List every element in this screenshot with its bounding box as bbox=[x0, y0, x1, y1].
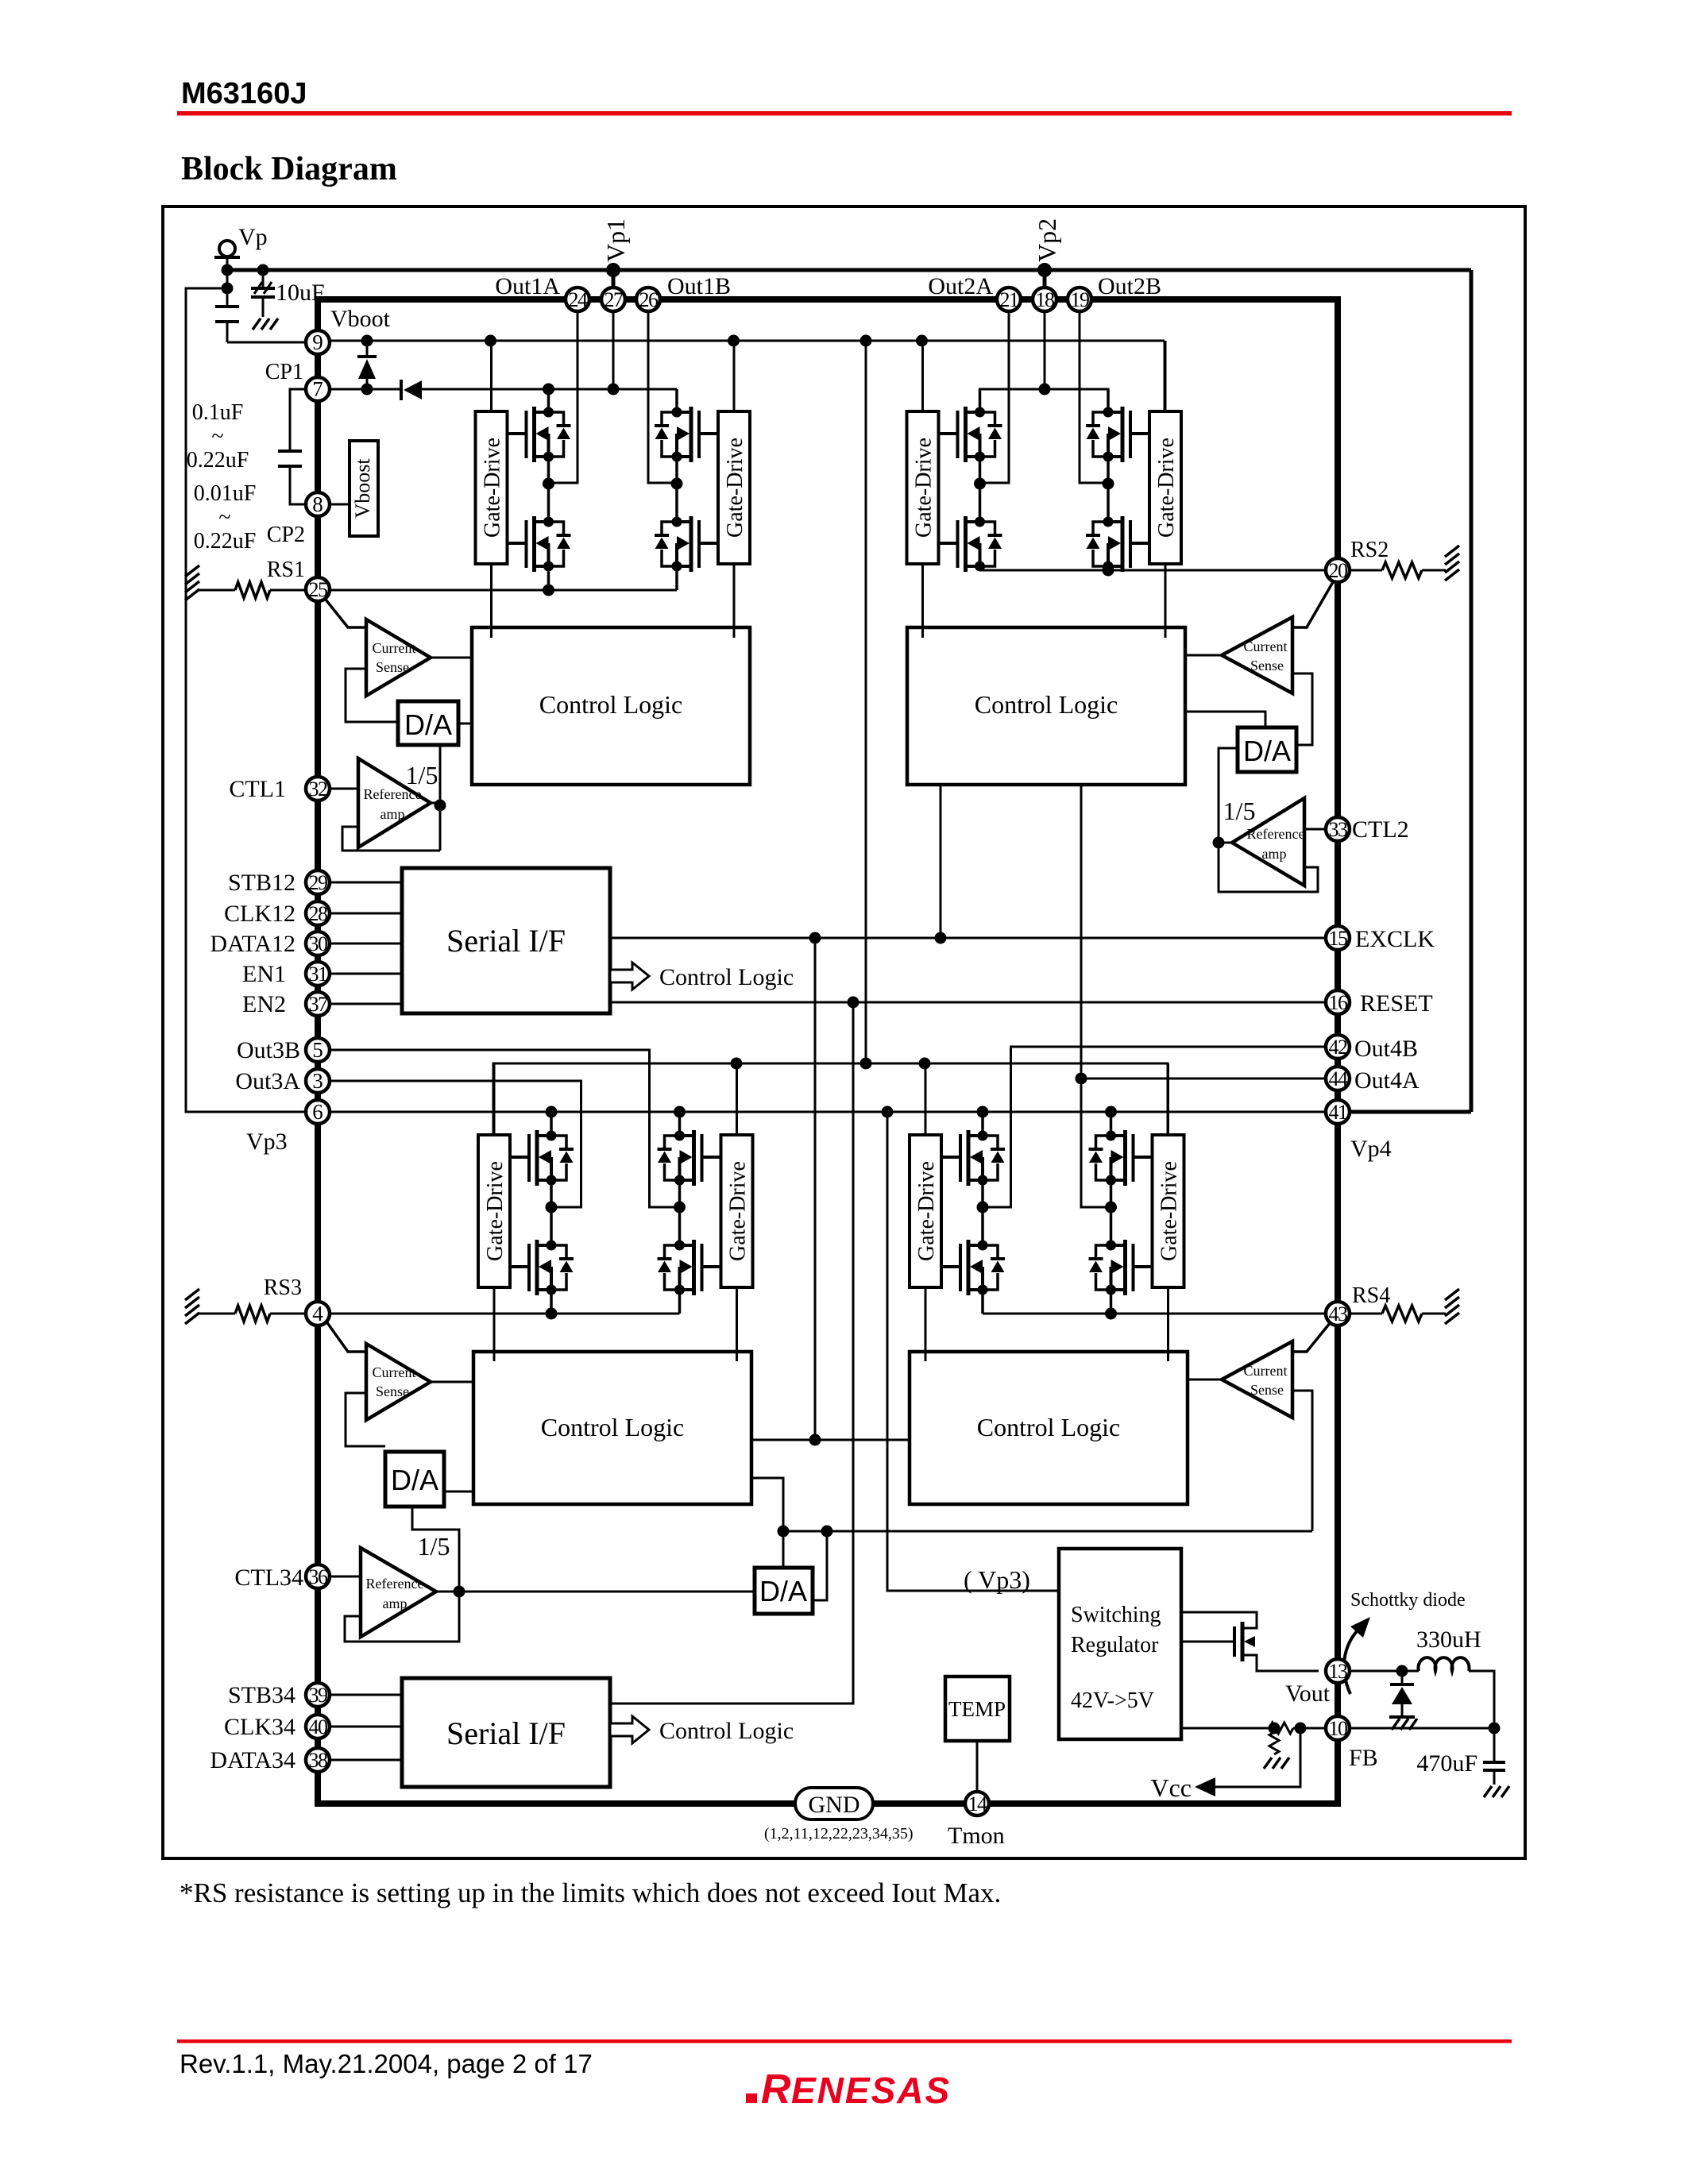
svg-text:40: 40 bbox=[309, 1715, 329, 1738]
transistor switching regulator pass FET bbox=[1181, 1612, 1257, 1628]
svg-text:( Vp3): ( Vp3) bbox=[964, 1565, 1030, 1594]
svg-text:GND: GND bbox=[809, 1792, 860, 1818]
pin 8 bbox=[306, 492, 330, 516]
wire H1 feed corner to right leg bbox=[676, 389, 678, 412]
svg-text:19: 19 bbox=[1071, 288, 1090, 311]
transistor low-side A ch3 bbox=[510, 1240, 574, 1295]
wire Out1B pin 26 to right mid bbox=[648, 311, 677, 483]
ground RS4 bbox=[1445, 1289, 1459, 1300]
wire pin30 to serial1 bbox=[330, 943, 402, 945]
node Vp3 carrier tap bbox=[882, 1106, 894, 1118]
wire ref2 to D/A2 bbox=[1219, 748, 1238, 843]
svg-text:Vp1: Vp1 bbox=[601, 218, 630, 262]
transistor low-side B ch3 bbox=[658, 1240, 721, 1295]
resistor RS1 bbox=[197, 589, 235, 592]
pin 33 bbox=[1326, 817, 1350, 841]
svg-text:Vp2: Vp2 bbox=[1033, 218, 1061, 262]
svg-text:Regulator: Regulator bbox=[1071, 1633, 1159, 1657]
wire pin4 tap diagonal bbox=[324, 1318, 366, 1352]
wire ref34 output bbox=[436, 1591, 459, 1593]
wire CS4 feedback to shared loop bbox=[1292, 1391, 1312, 1531]
wire pin20 tap diagonal bbox=[1292, 582, 1333, 627]
wire left leg (ch1) bbox=[547, 389, 550, 412]
node RS3 left leg bbox=[546, 1308, 558, 1320]
svg-text:Current: Current bbox=[1244, 1363, 1288, 1379]
ground bbox=[1264, 1758, 1272, 1769]
node Vp rail junction bbox=[222, 264, 234, 276]
wire Vp vertical bbox=[226, 257, 229, 307]
svg-text:1/5: 1/5 bbox=[418, 1532, 450, 1561]
transistor high-side B ch3 bbox=[658, 1130, 721, 1186]
transistor low-side B ch1 bbox=[655, 516, 718, 572]
svg-text:7: 7 bbox=[312, 377, 323, 401]
svg-text:Sense: Sense bbox=[376, 659, 409, 675]
node pin27 feed bbox=[608, 384, 620, 396]
svg-text:15: 15 bbox=[1329, 927, 1348, 950]
pin 13 bbox=[1326, 1659, 1350, 1683]
wire pin38 to serial2 bbox=[330, 1759, 402, 1761]
block Gate-Drive right (ch1) bbox=[718, 411, 750, 564]
svg-text:Gate-Drive: Gate-Drive bbox=[483, 1161, 508, 1261]
block Gate-Drive left (ch3) bbox=[478, 1135, 510, 1287]
svg-text:Gate-Drive: Gate-Drive bbox=[1154, 438, 1179, 538]
node ref34 out bbox=[454, 1586, 465, 1598]
wire CS1 feedback bbox=[346, 669, 398, 722]
wire pin39 to serial2 bbox=[330, 1694, 402, 1696]
svg-text:Switching: Switching bbox=[1071, 1603, 1161, 1627]
svg-text:DATA34: DATA34 bbox=[210, 1747, 295, 1773]
block Control Logic ch1 bbox=[472, 627, 750, 785]
svg-text:Vp3: Vp3 bbox=[246, 1129, 288, 1155]
block Gate-Drive left (ch1) bbox=[476, 411, 508, 564]
svg-text:20: 20 bbox=[1329, 559, 1349, 582]
block Control Logic ch4 bbox=[910, 1352, 1188, 1504]
svg-text:Serial I/F: Serial I/F bbox=[446, 923, 566, 959]
svg-text:Serial I/F: Serial I/F bbox=[446, 1715, 566, 1751]
svg-text:25: 25 bbox=[309, 578, 328, 601]
wire pin40 to serial2 bbox=[330, 1726, 402, 1728]
block TEMP bbox=[945, 1677, 1010, 1741]
svg-text:Vout: Vout bbox=[1285, 1680, 1331, 1707]
IC boundary thick border bbox=[318, 299, 1338, 1804]
svg-text:Rev.1.1, May.21.2004, page 2: Rev.1.1, May.21.2004, page 2 of 17 bbox=[180, 2049, 593, 2078]
svg-text:RS1: RS1 bbox=[267, 558, 305, 582]
pin 16 bbox=[1326, 990, 1350, 1014]
svg-text:RESET: RESET bbox=[1360, 990, 1433, 1017]
svg-text:5: 5 bbox=[312, 1038, 323, 1062]
svg-text:RS3: RS3 bbox=[264, 1275, 302, 1300]
pin 19 bbox=[1068, 287, 1091, 311]
wire pin43 tap diagonal bbox=[1292, 1318, 1334, 1352]
node EXCLK taps bbox=[809, 932, 821, 944]
pin 30 bbox=[306, 932, 330, 955]
wire gate-drive to control logic (ch3) bbox=[493, 1287, 496, 1361]
wire CL2 to D/A2 bbox=[1185, 712, 1265, 727]
ground RS2 bbox=[1445, 546, 1459, 557]
wire RS4 row bbox=[983, 1313, 1326, 1315]
footer red rule bbox=[177, 2039, 1512, 2043]
wire D/A3 to CL3 bbox=[444, 1491, 473, 1493]
wire D/A3 dogleg to ref34 node bbox=[412, 1507, 459, 1592]
pin 24 bbox=[566, 287, 589, 311]
node schottky tap bbox=[1396, 1665, 1408, 1677]
svg-text:38: 38 bbox=[309, 1749, 329, 1772]
svg-text:Current: Current bbox=[1244, 639, 1288, 654]
node H3 left leg top bbox=[546, 1106, 558, 1118]
capacitor 470uF bbox=[1493, 1728, 1496, 1762]
node mid B (ch1) bbox=[671, 478, 683, 490]
svg-text:D/A: D/A bbox=[391, 1464, 438, 1496]
svg-text:0.01uF: 0.01uF bbox=[194, 481, 257, 506]
pin 31 bbox=[306, 962, 330, 986]
svg-text:44: 44 bbox=[1329, 1067, 1349, 1090]
node RS4 right leg bbox=[1105, 1308, 1117, 1320]
block Gate-Drive left (ch2) bbox=[907, 411, 939, 564]
svg-text:TEMP: TEMP bbox=[948, 1697, 1006, 1721]
block Gate-Drive right (ch2) bbox=[1149, 411, 1181, 564]
wire CL3 to shared D/A bbox=[751, 1478, 783, 1568]
ground bbox=[1389, 1715, 1415, 1719]
svg-text:D/A: D/A bbox=[404, 708, 452, 741]
header red rule bbox=[177, 111, 1512, 116]
logo Renesas bbox=[746, 2066, 951, 2113]
node RS1 left leg bbox=[543, 585, 554, 596]
svg-text:FB: FB bbox=[1349, 1745, 1378, 1771]
block Control Logic ch2 bbox=[907, 627, 1185, 785]
block Gate-Drive right (ch4) bbox=[1153, 1135, 1184, 1287]
wire inductor to FB node bbox=[1469, 1671, 1494, 1728]
wire pin33 to ref amp2 bbox=[1304, 828, 1326, 831]
wire RS2 row bbox=[980, 569, 1327, 572]
svg-text:M63160J: M63160J bbox=[181, 77, 307, 110]
svg-text:Block Diagram: Block Diagram bbox=[181, 151, 397, 187]
resistor FB series bbox=[1269, 1723, 1293, 1734]
svg-text:Out3A: Out3A bbox=[235, 1068, 300, 1094]
svg-text:Control Logic: Control Logic bbox=[977, 1413, 1120, 1441]
svg-text:1/5: 1/5 bbox=[406, 761, 438, 789]
node CL3-CL4 link tap bbox=[809, 1434, 821, 1446]
svg-text:ENESAS: ENESAS bbox=[791, 2070, 951, 2111]
svg-text:R: R bbox=[761, 2066, 793, 2113]
op-amp Current Sense ch3 bbox=[366, 1344, 431, 1420]
node ref2 out bbox=[1213, 837, 1225, 849]
wire gate-drive stubs to rail (ch3) bbox=[493, 1063, 496, 1135]
svg-text:EN1: EN1 bbox=[242, 961, 286, 987]
resistor RS4 bbox=[1350, 1313, 1382, 1315]
svg-text:470uF: 470uF bbox=[1416, 1750, 1477, 1777]
diode Schottky bbox=[1401, 1671, 1404, 1684]
wire CS3 feedback bbox=[346, 1393, 385, 1446]
block Control Logic ch3 bbox=[473, 1352, 751, 1504]
svg-text:0.1uF: 0.1uF bbox=[192, 400, 244, 425]
node H4 right leg top bbox=[1105, 1106, 1117, 1118]
node shunt top bbox=[1269, 1723, 1280, 1734]
wire RS3 row bbox=[331, 1313, 680, 1315]
svg-text:*RS resistance is setting up i: *RS resistance is setting up in the limi… bbox=[180, 1877, 1001, 1908]
svg-text:EN2: EN2 bbox=[242, 991, 286, 1017]
svg-text:Sense: Sense bbox=[1250, 1382, 1284, 1398]
wire Out3B pin 5 to H3 right mid bbox=[330, 1050, 680, 1207]
wire left leg (ch3) bbox=[550, 1113, 553, 1136]
wire pin7 row bbox=[330, 388, 401, 391]
wire CS1 to CL1 bbox=[431, 657, 472, 659]
wire gate-drive to control logic (ch2) bbox=[921, 564, 924, 638]
svg-text:41: 41 bbox=[1329, 1101, 1348, 1124]
svg-text:CLK12: CLK12 bbox=[224, 901, 295, 927]
zener diode (bootstrap) bbox=[366, 341, 369, 357]
svg-text:DATA12: DATA12 bbox=[210, 931, 295, 957]
svg-text:Control Logic: Control Logic bbox=[975, 690, 1118, 719]
svg-text:Gate-Drive: Gate-Drive bbox=[912, 438, 937, 538]
svg-text:CP2: CP2 bbox=[267, 523, 305, 547]
wire CS2 feedback bbox=[1292, 673, 1312, 745]
wire CL4 to CS4 bbox=[1188, 1379, 1222, 1381]
wire Vout node row bbox=[1350, 1670, 1419, 1673]
transistor low-side B ch4 bbox=[1089, 1240, 1153, 1295]
svg-text:39: 39 bbox=[309, 1684, 328, 1707]
wire Out2B pin 19 to right mid bbox=[1080, 311, 1108, 483]
wire ref34 to shared D/A bbox=[459, 1591, 755, 1593]
svg-text:amp: amp bbox=[1262, 846, 1287, 862]
svg-text:6: 6 bbox=[312, 1100, 323, 1124]
svg-text:0.22uF: 0.22uF bbox=[194, 529, 257, 554]
wire Vcc branch bbox=[1204, 1728, 1300, 1787]
wire Vp2 stub bbox=[1043, 270, 1047, 287]
wire Vboot rail bbox=[330, 340, 1165, 342]
wire Vp3-Vp4 feed row bbox=[330, 1111, 1326, 1113]
wire EXCLK row bbox=[610, 937, 1326, 940]
svg-text:(1,2,11,12,22,23,34,35): (1,2,11,12,22,23,34,35) bbox=[764, 1825, 914, 1843]
op-amp Current Sense ch4 bbox=[1222, 1341, 1292, 1418]
capacitor 0.01uF-0.22uF (charge pump) bbox=[290, 389, 329, 451]
wire Vp3 carrier to switching regulator bbox=[887, 1112, 1059, 1591]
wire left outer branch down to pin 6 bbox=[186, 288, 306, 1112]
ground RS3 bbox=[185, 1289, 199, 1300]
pin 29 bbox=[306, 870, 330, 894]
node FB divider bbox=[1295, 1723, 1307, 1734]
svg-text:CTL34: CTL34 bbox=[234, 1565, 303, 1591]
wire left leg (ch2) bbox=[979, 389, 982, 412]
node mid A (ch1) bbox=[543, 478, 554, 490]
svg-text:3: 3 bbox=[312, 1069, 323, 1093]
svg-text:42V->5V: 42V->5V bbox=[1071, 1688, 1154, 1713]
svg-text:Sense: Sense bbox=[376, 1383, 409, 1399]
ground bbox=[1484, 1786, 1492, 1797]
op-amp Current Sense ch1 bbox=[366, 619, 431, 696]
svg-text:EXCLK: EXCLK bbox=[1355, 926, 1435, 952]
wire ref2 feedback loop bbox=[1219, 843, 1318, 892]
capacitor 10uF electrolytic bbox=[262, 270, 265, 287]
transistor low-side B ch2 bbox=[1086, 516, 1149, 572]
svg-text:Out2A: Out2A bbox=[928, 273, 993, 299]
wire Vboot to bottom rail vertical bbox=[865, 341, 867, 1063]
svg-text:16: 16 bbox=[1329, 991, 1349, 1014]
GND terminal oval bbox=[795, 1788, 873, 1819]
wire pin25 tap diagonal bbox=[323, 596, 366, 627]
pin 44 bbox=[1326, 1067, 1350, 1090]
svg-text:Out2B: Out2B bbox=[1098, 273, 1161, 299]
terminal Vp bbox=[219, 241, 235, 257]
svg-text:0.22uF: 0.22uF bbox=[187, 448, 249, 473]
wire ref1 output bbox=[431, 802, 440, 805]
callout arrow to schottky bbox=[1344, 1625, 1363, 1694]
svg-text:CP1: CP1 bbox=[265, 360, 303, 384]
wire pin8 to Vboost bbox=[329, 504, 350, 506]
svg-text:33: 33 bbox=[1329, 818, 1348, 841]
node mid A (ch3) bbox=[546, 1202, 558, 1214]
resistor RS2 bbox=[1350, 569, 1382, 572]
arrow Vcc bbox=[1195, 1777, 1215, 1796]
node Vboot rail junctions bbox=[485, 335, 496, 347]
svg-text:Out1B: Out1B bbox=[667, 273, 731, 299]
node mid A (ch4) bbox=[977, 1202, 989, 1214]
wire RESET tap down to serial2 bbox=[610, 1002, 853, 1704]
block shared D/A bbox=[755, 1568, 813, 1614]
wire ref1 feedback loop bbox=[342, 827, 440, 851]
wire Vp1 stub bbox=[612, 270, 616, 287]
transistor high-side A ch2 bbox=[939, 407, 1002, 462]
node RESET taps bbox=[848, 997, 859, 1009]
wire RS1 row bbox=[330, 589, 677, 592]
pin 43 bbox=[1326, 1302, 1350, 1325]
pin 40 bbox=[306, 1715, 330, 1738]
block Switching Regulator bbox=[1059, 1549, 1181, 1739]
svg-text:amp: amp bbox=[380, 806, 405, 822]
svg-text:STB34: STB34 bbox=[228, 1682, 295, 1708]
svg-text:29: 29 bbox=[309, 871, 328, 894]
resistor RS3 bbox=[197, 1313, 235, 1315]
svg-text:42: 42 bbox=[1329, 1036, 1348, 1059]
wire pin32 to ref amp bbox=[329, 788, 358, 790]
svg-text:36: 36 bbox=[309, 1565, 329, 1588]
transistor high-side B ch4 bbox=[1089, 1130, 1153, 1186]
svg-text:D/A: D/A bbox=[759, 1575, 807, 1607]
svg-text:13: 13 bbox=[1329, 1660, 1348, 1683]
ground RS1 bbox=[185, 565, 199, 577]
node FB cap junction bbox=[1489, 1723, 1501, 1734]
svg-text:Tmon: Tmon bbox=[948, 1823, 1005, 1849]
pin 20 bbox=[1326, 558, 1350, 582]
wire Vp rail top bbox=[227, 268, 1471, 272]
pin 3 bbox=[306, 1069, 330, 1093]
node mid B (ch3) bbox=[674, 1202, 686, 1214]
svg-text:Reference: Reference bbox=[1247, 826, 1305, 842]
wire CL3-CL4 link bbox=[751, 1439, 910, 1441]
svg-text:Sense: Sense bbox=[1250, 658, 1284, 673]
svg-text:Gate-Drive: Gate-Drive bbox=[723, 438, 747, 538]
svg-text:CTL2: CTL2 bbox=[1352, 816, 1409, 843]
svg-text:9: 9 bbox=[312, 330, 323, 354]
wire Out3A pin 3 to H3 left mid bbox=[330, 1081, 581, 1207]
wire gate-drive to control logic (ch4) bbox=[925, 1287, 927, 1361]
pin 5 bbox=[306, 1038, 330, 1062]
wire cap to pin 9 bbox=[227, 341, 306, 344]
node Vp2 bbox=[1037, 263, 1052, 277]
svg-text:26: 26 bbox=[639, 288, 659, 311]
pin 10 bbox=[1326, 1716, 1350, 1740]
wire ref2 output bbox=[1219, 842, 1232, 844]
wire FB row right bbox=[1350, 1727, 1494, 1730]
node H3 right leg top bbox=[674, 1106, 686, 1118]
svg-text:37: 37 bbox=[309, 993, 329, 1016]
pin 25 bbox=[306, 577, 330, 601]
pin 18 bbox=[1033, 287, 1056, 311]
wire CL2 to EXCLK row bbox=[940, 785, 942, 938]
wire left leg (ch4) bbox=[981, 1113, 984, 1136]
svg-text:27: 27 bbox=[605, 288, 624, 311]
svg-text:Out4A: Out4A bbox=[1354, 1067, 1420, 1094]
svg-text:10uF: 10uF bbox=[276, 280, 325, 306]
wire gate-drive stubs to rail (ch1) bbox=[490, 341, 492, 411]
pin 28 bbox=[306, 901, 330, 925]
wire bottom gate-drive rail bbox=[493, 1063, 1168, 1135]
node bottom rail junctions bbox=[731, 1058, 743, 1070]
pin 36 bbox=[306, 1565, 330, 1588]
node Vp left branch junction bbox=[222, 283, 234, 295]
svg-text:amp: amp bbox=[383, 1596, 408, 1611]
op-amp Current Sense ch2 bbox=[1222, 617, 1292, 693]
svg-text:30: 30 bbox=[309, 932, 329, 955]
svg-text:Control Logic: Control Logic bbox=[659, 1718, 794, 1744]
wire gate-drive stubs to rail (ch2) bbox=[921, 341, 924, 411]
svg-text:STB12: STB12 bbox=[228, 870, 295, 896]
svg-text:RS2: RS2 bbox=[1350, 538, 1389, 562]
svg-text:Current: Current bbox=[373, 1364, 416, 1380]
wire shared loop to CS4 and D/A right bbox=[783, 1530, 1312, 1533]
wire D/A1 to CL1 bbox=[458, 723, 472, 725]
node zener top bbox=[361, 335, 373, 347]
op-amp Reference amp ch2 (1/5) bbox=[1232, 798, 1304, 886]
pin 32 bbox=[306, 777, 330, 801]
wire ref34 feedback loop bbox=[345, 1592, 459, 1642]
svg-text:~: ~ bbox=[218, 505, 230, 530]
transistor low-side A ch4 bbox=[941, 1240, 1005, 1295]
node shared loop taps bbox=[778, 1526, 790, 1538]
svg-text:21: 21 bbox=[1000, 288, 1019, 311]
node mid A (ch2) bbox=[974, 478, 986, 490]
svg-text:Current: Current bbox=[373, 640, 416, 656]
svg-text:CLK34: CLK34 bbox=[224, 1714, 295, 1740]
transistor high-side A ch4 bbox=[941, 1130, 1005, 1186]
wire TEMP to pin14 bbox=[976, 1741, 979, 1792]
wire Out2A pin 21 to left mid bbox=[980, 311, 1010, 483]
svg-text:Out3B: Out3B bbox=[237, 1037, 300, 1063]
pin 7 bbox=[306, 377, 330, 401]
wire Out4B pin 42 to H4 left mid bbox=[983, 1047, 1326, 1207]
block arrow serial1 to control logic bbox=[610, 963, 649, 990]
pin 6 bbox=[306, 1100, 330, 1124]
wire pin 27 to H1 feed bbox=[612, 311, 615, 389]
node pin18 feed bbox=[1039, 384, 1051, 396]
node mid B (ch2) bbox=[1103, 478, 1114, 490]
node Vp1 bbox=[606, 263, 620, 277]
svg-text:Control Logic: Control Logic bbox=[659, 964, 794, 990]
node 10uF rail junction bbox=[257, 264, 269, 276]
block D/A ch1 bbox=[398, 701, 458, 745]
svg-text:330uH: 330uH bbox=[1416, 1626, 1481, 1653]
wire pin28 to serial1 bbox=[330, 913, 402, 915]
wire gate-drive to control logic (ch1) bbox=[490, 564, 492, 638]
transistor low-side A ch2 bbox=[939, 516, 1002, 572]
wire gate-drive stubs to rail (ch4) bbox=[925, 1063, 927, 1135]
resistor FB shunt bbox=[1269, 1732, 1279, 1754]
wire RESET row bbox=[610, 1001, 1326, 1004]
op-amp Reference amp ch1 (1/5) bbox=[358, 758, 431, 847]
svg-text:32: 32 bbox=[309, 778, 328, 801]
svg-text:Vp4: Vp4 bbox=[1350, 1136, 1392, 1162]
node H4 left leg top bbox=[977, 1106, 989, 1118]
svg-text:Schottky diode: Schottky diode bbox=[1350, 1590, 1466, 1611]
